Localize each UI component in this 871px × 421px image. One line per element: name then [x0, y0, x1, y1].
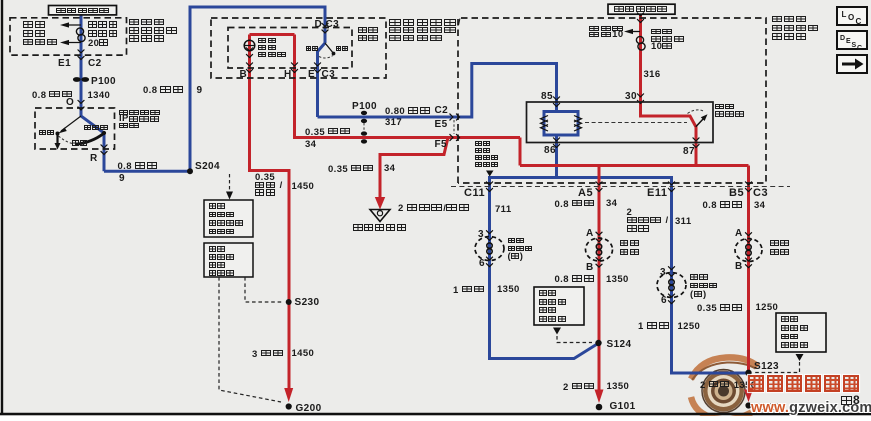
crossing marks B5: [745, 182, 752, 192]
label LOC O: [848, 13, 855, 23]
dashed pointer to S124: [557, 336, 592, 343]
connector C2 dashed link: [453, 120, 455, 134]
ground G102 arrow: [744, 390, 753, 403]
pin label H: [284, 70, 292, 80]
circuit number 1450 lower: [292, 349, 315, 359]
wire label 2 BLK G101: [563, 383, 596, 393]
splice label S124: [607, 340, 632, 350]
circuit number 1350 G101: [607, 382, 630, 392]
fog switch dashed travel arc: [319, 56, 333, 59]
pin label 6 right headlamp: [661, 296, 667, 306]
pin label E1: [58, 59, 71, 69]
crossing marks D/C3: [322, 23, 329, 33]
ground G101 arrow: [595, 390, 604, 404]
pin label 86: [544, 146, 556, 156]
wire label 3 BLK: [252, 350, 285, 360]
pin label 3 left headlamp: [478, 230, 484, 240]
relay coil winding marks left: [541, 116, 549, 132]
pin label C3 bottom: [322, 70, 336, 80]
circuit number 1350 left: [497, 285, 520, 295]
wire F5 leg down to red bus: [519, 138, 522, 166]
fog indicator lamp symbol: [244, 40, 256, 51]
crossing marks indicator lamp: [246, 48, 253, 58]
ground G101 dot: [596, 404, 603, 411]
connector label P100 mid: [352, 102, 377, 112]
circuit number 1340: [88, 91, 111, 101]
pin label C2 left: [88, 59, 102, 69]
connector label P100 left: [91, 77, 116, 87]
circuit number 9 lower: [119, 174, 125, 184]
label rear wiper washer multifunction switch: [389, 19, 461, 42]
connector label E11: [647, 189, 667, 199]
splice label S230: [295, 298, 320, 308]
pin label 3 right headlamp: [660, 268, 666, 278]
LOC reference box: [837, 7, 867, 25]
watermark url www.gzweix.com: [751, 400, 871, 416]
label ground distribution ref center: [539, 290, 567, 325]
reference box ground distribution right: [776, 313, 826, 352]
circuit number 711: [495, 205, 512, 215]
DESC reference box: [837, 31, 867, 49]
ground G102 dot: [745, 402, 751, 408]
fog indicator/switch inner dashed outline: [228, 28, 352, 69]
arrow to power distribution cell 10: [624, 29, 640, 34]
label hot-at-all-times right: [614, 6, 668, 16]
circuit number 34 module: [384, 164, 395, 174]
label fog lamp relay: [715, 104, 746, 119]
wire label 0.8 ORN: [32, 91, 74, 101]
label left front fog lamp: [620, 240, 641, 257]
dimmer switch HEADLAMP contact dot: [102, 131, 106, 135]
label ON contact: [306, 46, 319, 56]
circuit number 316: [644, 70, 661, 80]
dashed pointer to S123: [755, 362, 800, 373]
wire parking-fuse feed (x81): [80, 14, 83, 108]
relay coil U-fog: [544, 112, 578, 136]
connector P100 symbol on 317 wire: [361, 111, 367, 123]
crossing marks F5: [450, 134, 460, 141]
crossing marks relay pin 30: [637, 94, 644, 104]
figure number 8: [841, 396, 860, 407]
circuit number 34 A5: [606, 199, 617, 209]
arrow feed to rear fog module: [375, 197, 385, 210]
hot-at-all-times box right: [608, 4, 675, 14]
label fog indicator: [258, 38, 287, 59]
junction box dashed outline top-left: [10, 18, 127, 55]
lamp right front fog lamp: [735, 232, 762, 267]
lamp left headlamp high beam: [475, 230, 504, 266]
label lighting system headlamp schematic: [475, 141, 499, 169]
dimmer switch OFF post arrow: [55, 134, 61, 150]
border frame bottom edge: [0, 413, 871, 416]
pin label A right fog: [735, 229, 743, 239]
label underhood accessory junction box left: [129, 19, 179, 44]
wire 0.8 BRN 9 S204 up and over to fog switch D pin: [190, 7, 325, 171]
pin label 30: [625, 92, 637, 102]
relay actuating dashed line: [585, 122, 687, 124]
wire label 1 BLK left: [453, 286, 486, 296]
wire fog fuse 316 down to relay pin 30 and armature: [641, 14, 697, 166]
label DESC S: [852, 40, 857, 51]
pin label 6 left headlamp: [479, 259, 485, 269]
circuit number 1250 right: [678, 322, 701, 332]
relay armature travel dashed arc: [688, 110, 705, 114]
ground label G200: [296, 404, 322, 414]
crossing marks A5: [596, 182, 603, 192]
arrow to wiring system power distribution (upper): [60, 22, 81, 27]
pin label B: [240, 70, 248, 80]
crossing marks E5: [450, 114, 460, 121]
fog switch throw line to OFF: [325, 43, 335, 55]
crossing marks C11: [486, 182, 493, 192]
wire 0.80 YEL 317 E pin to relay pin 85: [318, 64, 557, 118]
watermark text jingtong weixiu download: [748, 375, 862, 393]
dashed pointer ground box to S230: [245, 277, 283, 302]
crossing marks E11: [668, 182, 675, 192]
ground label G101: [610, 402, 636, 412]
connector label B5: [729, 189, 744, 199]
label LOC C: [856, 17, 862, 27]
label wiring system power distribution: [23, 21, 59, 48]
relay box outline: [527, 102, 714, 143]
circuit number 1350 fog: [606, 275, 629, 285]
circuit number 311: [675, 217, 692, 227]
label parking lamp fuse 20A: [88, 21, 119, 49]
pin label 85: [541, 92, 553, 102]
pin label F5: [435, 140, 447, 150]
wire label 0.8 PPL B5: [703, 201, 744, 211]
label ground distribution ref left: [209, 246, 236, 278]
connector P100 symbol on 0.35 PPL wire: [361, 131, 367, 143]
multifunction switch dashed outline: [211, 18, 386, 78]
connector label C3 right: [753, 189, 768, 199]
pin label E: [308, 70, 315, 80]
fuse fog lamp 10A: [636, 36, 645, 50]
wire label 0.35 PPL module: [328, 165, 375, 175]
label HEADLAMP contact: [84, 125, 109, 135]
crossing marks H pin: [291, 63, 298, 73]
pointer arrow lighting system headlamp schematic: [486, 171, 494, 177]
crossing marks fog fuse feed: [637, 13, 644, 23]
wire label 2 LT-GRN/WHT: [398, 204, 471, 214]
pin label B right fog: [735, 262, 743, 272]
label OFF contact: [39, 130, 56, 140]
wire label 2 LT-GRN/BLK: [627, 209, 669, 234]
wire label 0.8 PPL A5: [555, 200, 596, 210]
label exterior lighting schematic ref: [209, 203, 245, 237]
wire red bus F5-B5: [520, 164, 749, 167]
wire 0.35 PPL 34 switch H pin to F5: [295, 35, 521, 138]
pin label C3 top: [326, 20, 340, 30]
connector row dashed line C11-C3: [451, 186, 790, 188]
crossing marks relay pin 85: [553, 97, 560, 107]
dashed pointer ground box to G200: [219, 277, 281, 402]
crossing marks E pin: [314, 63, 321, 73]
wire label 0.35 BLK right: [697, 304, 744, 314]
crossing marks B pin: [246, 63, 253, 73]
lamp right headlamp high beam: [657, 266, 686, 303]
connector P100 dashed link: [363, 123, 365, 132]
pin label R: [90, 154, 98, 164]
pin label A left fog: [586, 229, 594, 239]
pointer arrow below right ground box: [796, 354, 804, 361]
ground G200 arrow: [284, 388, 293, 402]
label rear fog module: [353, 224, 407, 234]
wire label 0.8 BLK: [555, 275, 596, 285]
label right headlamp high: [690, 274, 718, 300]
label headlamp and IP dimmer switch: [119, 110, 161, 129]
dashed pointer S204 to reference box: [226, 174, 233, 200]
border frame left edge: [1, 0, 3, 415]
crossing marks relay pin 86: [553, 138, 560, 148]
arrow to wiring system power distribution (lower): [60, 40, 81, 45]
wire relay pin 86 down to blue bus: [555, 135, 558, 178]
next-page arrow box: [837, 55, 867, 73]
pin label D: [315, 20, 323, 30]
hot-at-all-times box left: [49, 6, 117, 15]
wire label 1 BLK right: [638, 322, 671, 332]
relay coil winding marks right: [574, 116, 582, 132]
circuit number 317: [385, 118, 402, 128]
label hot-at-all-times left: [56, 8, 110, 18]
label left headlamp high: [508, 238, 534, 261]
wire 0.8 BRN 9 segment R to S204: [104, 170, 190, 173]
wire label 0.35 PPL upper: [305, 128, 352, 138]
wire 0.35 BLK/WHT 1450 indicator B pin to G200: [250, 35, 290, 390]
label fog lamp fuse 10A: [651, 29, 685, 51]
pin label O: [66, 98, 74, 108]
connector label C11: [464, 189, 485, 199]
wire E11 leg through right headlamp to S123: [672, 176, 747, 373]
label LOC: [842, 10, 847, 20]
pin label 87: [683, 147, 695, 157]
label underhood accessory junction box right: [772, 16, 820, 42]
dimmer switch dashed outline: [35, 108, 115, 149]
label OFF contact fog: [336, 46, 349, 56]
label ground distribution ref right: [781, 316, 809, 351]
circuit number 34 upper: [305, 140, 316, 150]
dimmer switch dashed travel arc: [59, 136, 75, 144]
splice S124: [595, 340, 601, 346]
pointer arrow below center ground box: [553, 328, 561, 335]
fuse parking lamp 20A: [76, 28, 85, 42]
wire label 0.8 BRN lower: [118, 162, 160, 172]
label PARK contact: [72, 140, 89, 150]
relay armature arrow: [696, 114, 708, 127]
pin label C2 mid: [435, 106, 449, 116]
label DESC E: [846, 36, 851, 47]
crossing marks E1/C2: [78, 50, 85, 60]
wire label 0.80 YEL: [385, 107, 432, 117]
wire label 0.35 BLK/WHT: [255, 174, 283, 198]
circuit number 34 B5: [754, 201, 765, 211]
label DESC C: [857, 43, 862, 54]
lamp left front fog lamp: [586, 232, 613, 267]
reference box ground distribution left: [204, 243, 253, 277]
circuit number 1450 upper: [292, 182, 315, 192]
crossing marks relay pin 87: [693, 138, 700, 148]
pin label E5: [435, 120, 448, 130]
connector label A5: [578, 189, 593, 199]
rear fog module triangle symbol: [370, 210, 390, 222]
watermark eye logo: [691, 357, 758, 419]
splice label S123: [754, 362, 779, 372]
connector P100 symbol on x81: [73, 77, 89, 82]
wire dimmer switch internal to R pin: [81, 108, 104, 171]
label DESC D: [840, 33, 845, 44]
circuit number 9 top: [197, 86, 203, 96]
wire label 0.8 BRN vertical: [143, 86, 185, 96]
splice label S204: [195, 162, 220, 172]
ground label G102: [753, 403, 779, 413]
dimmer switch wiper arc PARK: [75, 134, 104, 145]
wire 0.35 PPL 34 branch to rear fog module: [380, 138, 448, 198]
wire indicator top link: [250, 33, 295, 36]
label right front fog lamp: [770, 240, 791, 258]
reference box ground distribution center: [534, 287, 584, 325]
ground G200 dot: [286, 403, 292, 409]
crossing marks dimmer entry O: [78, 100, 85, 110]
wire A5 leg through left fog lamp to G101: [598, 166, 601, 391]
crossing marks R pin: [101, 145, 108, 155]
dimmer switch throw line to OFF: [56, 116, 82, 136]
label fog lamp switch: [358, 27, 380, 42]
wire fog switch arm to E pin: [318, 43, 326, 117]
splice S230: [286, 299, 292, 305]
label power distribution cell 10: [589, 26, 624, 38]
circuit number 1250 fog: [756, 303, 779, 313]
wire C11 leg through left headlamp to S124: [490, 176, 599, 359]
splice S204: [187, 168, 193, 174]
wire blue bus C11-E11: [490, 176, 672, 179]
wire B5 leg through right fog lamp to G102: [747, 166, 750, 391]
underhood junction box dashed outline right: [458, 18, 766, 183]
pin label B left fog: [586, 263, 594, 273]
wire label 2 BLK G102: [700, 381, 756, 391]
reference box exterior lights schematic: [204, 200, 253, 237]
splice S123: [745, 370, 751, 376]
